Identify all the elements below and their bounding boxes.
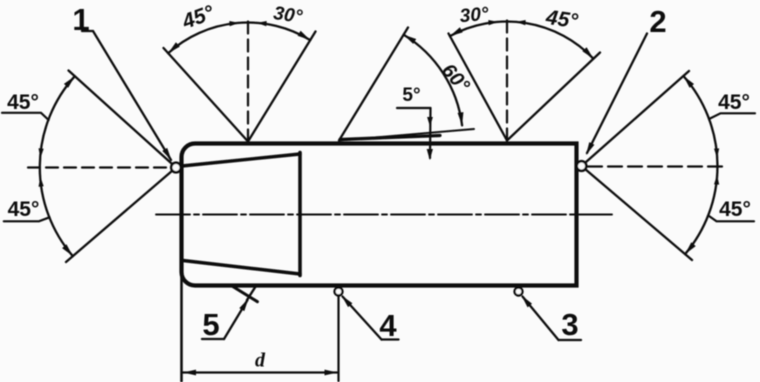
- arrow 60deg arc bottom: [458, 112, 464, 125]
- arrow leader 3: [522, 296, 533, 308]
- svg-text:60°: 60°: [437, 60, 474, 98]
- 60deg arc: [404, 35, 463, 126]
- right upper 45deg line: [582, 71, 690, 166]
- left lower 45deg line: [66, 168, 176, 263]
- left dashed reference line: [28, 166, 170, 168]
- arrow d left: [183, 370, 196, 376]
- T2 left 30deg line: [449, 34, 508, 141]
- right 45deg arc: [683, 76, 717, 254]
- T2 dashed vertical: [506, 19, 508, 141]
- arrow leader 4: [342, 296, 353, 308]
- arrow right arc mid lower: [714, 175, 719, 185]
- 60deg line: [339, 28, 408, 141]
- arrow leader 2: [586, 142, 594, 155]
- svg-text:45°: 45°: [544, 6, 580, 33]
- arrow 5deg lower: [427, 149, 433, 160]
- leader 1: [82, 31, 171, 160]
- svg-text:30°: 30°: [272, 3, 304, 28]
- svg-text:5°: 5°: [402, 85, 420, 106]
- svg-text:5: 5: [202, 307, 219, 342]
- svg-text:d: d: [255, 350, 266, 372]
- arrow leader 1: [162, 148, 171, 161]
- arrow T2 arc right end: [582, 47, 593, 58]
- arrow 60deg arc top: [404, 35, 417, 44]
- 5deg line thin: [339, 129, 474, 141]
- T2 arc: [450, 22, 594, 59]
- arrow T1 arc left end: [168, 42, 180, 53]
- arrow left arc mid upper: [39, 148, 44, 158]
- left 45deg arc: [40, 76, 75, 256]
- arrow left arc mid lower: [39, 177, 44, 187]
- 5deg line thick part: [340, 136, 440, 140]
- leader 4: [343, 297, 382, 340]
- right lower 45deg line: [582, 166, 693, 260]
- arrow T1 arc right end: [298, 31, 311, 40]
- node V1 left vertex circle: [171, 163, 181, 173]
- T1 arc: [168, 23, 310, 54]
- 5deg leader underline: [397, 107, 431, 109]
- T1 left 45deg line: [164, 48, 249, 142]
- arrow d right: [325, 370, 338, 376]
- extension line right of d: [337, 296, 339, 382]
- svg-text:30°: 30°: [459, 4, 490, 27]
- left extension line (body edge continued down): [180, 272, 183, 381]
- left upper 45deg line: [69, 71, 177, 168]
- chamfer tick at 5 left stroke: [233, 287, 258, 302]
- arrow left arc bottom end: [62, 244, 73, 256]
- arrow T1 arc mid left: [229, 21, 239, 26]
- dimension line d: [183, 371, 337, 373]
- arrow 5deg upper: [427, 117, 433, 127]
- svg-text:45°: 45°: [719, 198, 751, 221]
- arrow T2 arc left end: [450, 27, 463, 36]
- cavity bottom line: [183, 261, 300, 275]
- chamfer tick at 5 right stroke: [247, 286, 256, 300]
- svg-text:3: 3: [561, 307, 578, 342]
- svg-text:2: 2: [649, 4, 666, 39]
- node C4 bottom circle left: [335, 288, 343, 296]
- arrow T1 arc mid right: [257, 21, 267, 26]
- node C3 bottom circle right: [515, 288, 523, 296]
- T1 right 30deg line: [248, 32, 316, 142]
- right dashed reference line: [588, 165, 728, 167]
- 5deg leader vertical: [429, 108, 432, 158]
- arrow left arc top end: [64, 76, 75, 88]
- arrow leader 5: [239, 299, 248, 312]
- cavity top line: [177, 154, 300, 167]
- T1 dashed vertical: [247, 17, 249, 142]
- leader 2: [587, 34, 647, 154]
- node V2 right vertex circle: [577, 161, 587, 171]
- arrow T2 arc mid right: [516, 20, 526, 25]
- arrow right arc mid upper: [714, 148, 719, 158]
- T2 right 45deg line: [507, 53, 600, 141]
- arrow right arc bottom end: [685, 242, 696, 254]
- svg-text:4: 4: [379, 308, 397, 343]
- svg-text:45°: 45°: [8, 198, 40, 221]
- arrow T2 arc mid left: [488, 20, 498, 25]
- cavity right face: [298, 153, 302, 276]
- body outline: [182, 144, 577, 286]
- arrow right arc top end: [683, 76, 694, 88]
- leader 3: [523, 297, 559, 341]
- main centerline: [156, 214, 612, 216]
- svg-text:45°: 45°: [7, 91, 39, 114]
- svg-text:45°: 45°: [718, 91, 750, 114]
- leader 5: [224, 300, 248, 339]
